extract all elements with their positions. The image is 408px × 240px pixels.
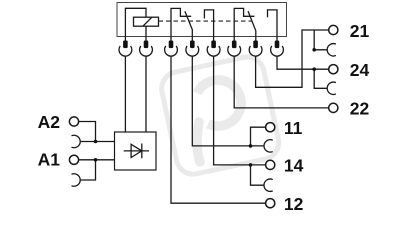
svg-text:14: 14 [284,156,304,176]
svg-text:12: 12 [284,194,304,214]
svg-text:A1: A1 [38,149,61,169]
svg-text:A2: A2 [38,112,61,132]
svg-text:21: 21 [350,21,370,41]
svg-text:24: 24 [350,60,370,80]
svg-text:22: 22 [350,99,370,119]
svg-text:11: 11 [284,118,303,138]
